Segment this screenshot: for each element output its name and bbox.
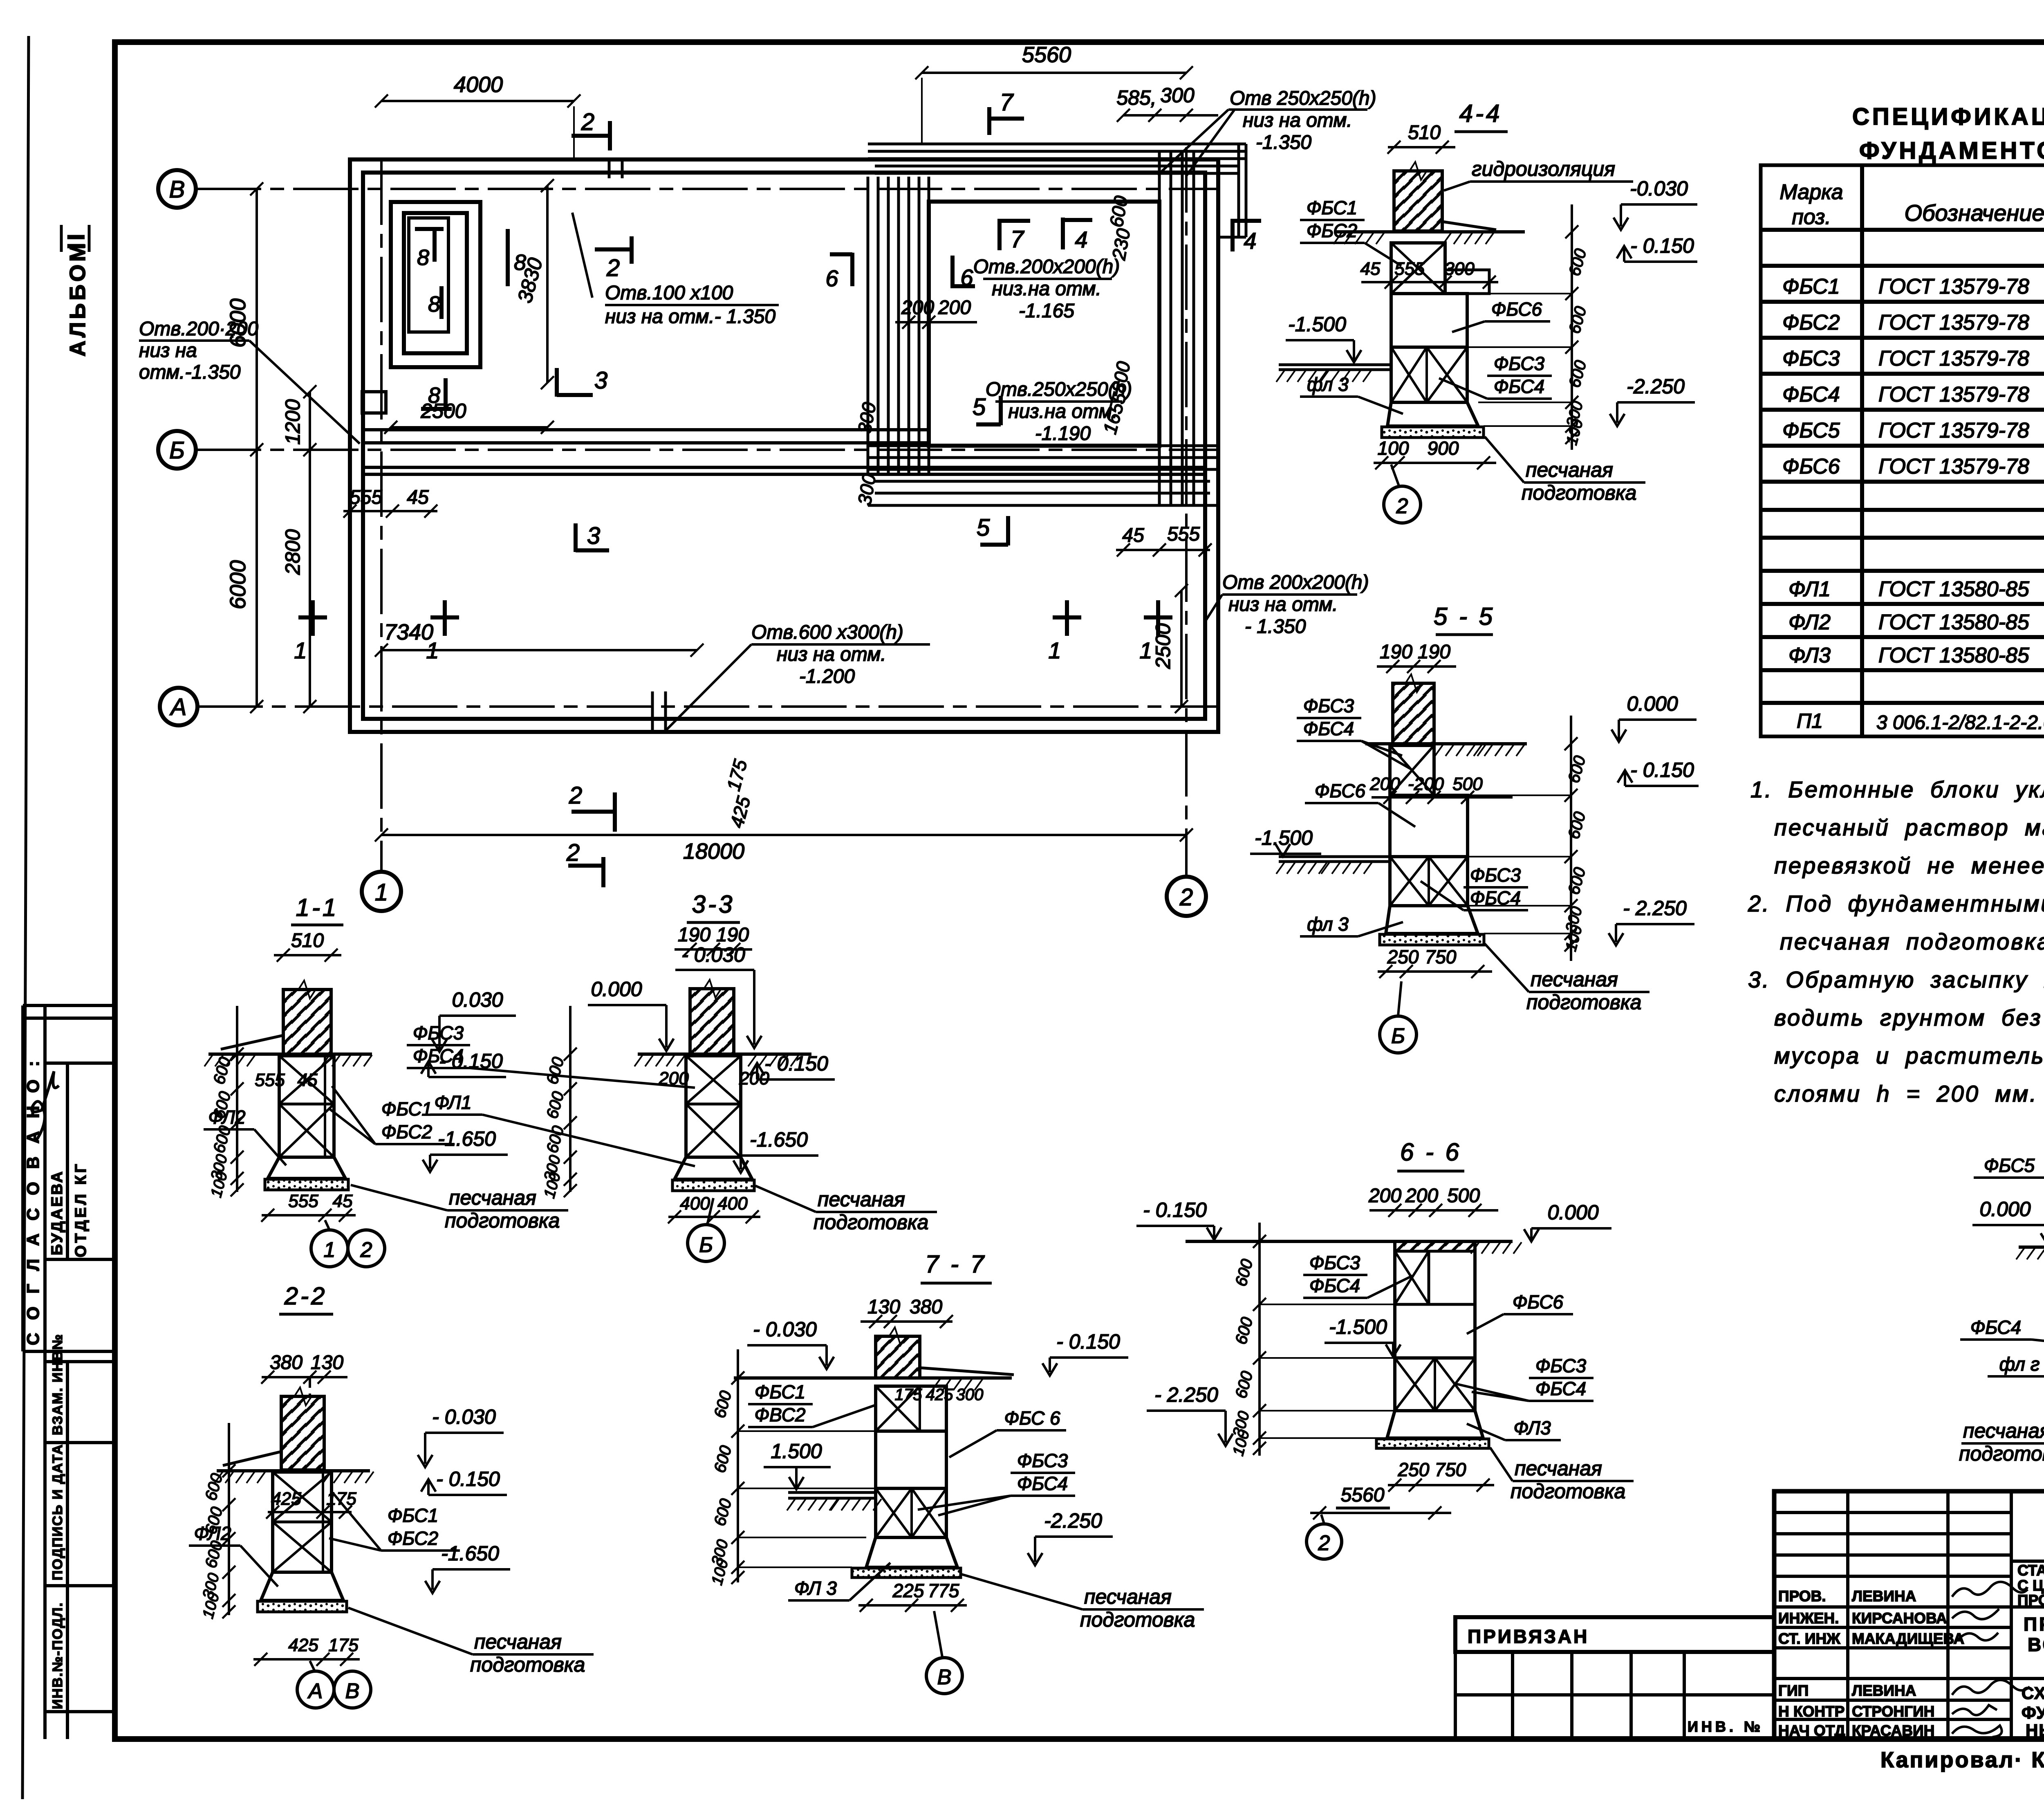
svg-text:ФБС2: ФБС2 (1307, 220, 1357, 241)
svg-text:НАЧ ОТД: НАЧ ОТД (1778, 1722, 1845, 1739)
svg-text:200: 200 (739, 1068, 769, 1088)
svg-text:II: II (63, 231, 90, 249)
axis Б circle (158, 431, 196, 469)
section 7-7 floor slab left (788, 1491, 876, 1494)
dim 2500 right (1180, 590, 1183, 707)
svg-text:ФБС4: ФБС4 (1782, 383, 1840, 406)
section 2-2 axis circles А В (297, 1671, 334, 1708)
section 1-1 wall (283, 990, 331, 1054)
svg-text:750: 750 (1435, 1459, 1466, 1480)
wall inner rectangle (363, 173, 1205, 719)
svg-text:2. Под фундаментными плитами: 2. Под фундаментными плитами устраиваетс… (1748, 891, 2044, 916)
svg-text:водить грунтом без включени: водить грунтом без включения строительно… (1774, 1005, 2044, 1030)
svg-text:380: 380 (270, 1352, 303, 1373)
axis А line (197, 705, 1218, 708)
row ФБС3 (1782, 344, 2044, 370)
svg-text:ФЛ 3: ФЛ 3 (794, 1578, 837, 1599)
left stamp grid (23, 1005, 112, 1739)
svg-text:ФБС3: ФБС3 (1303, 695, 1354, 716)
svg-text:Н КОНТР: Н КОНТР (1778, 1703, 1845, 1720)
svg-text:500: 500 (1452, 774, 1483, 794)
svg-text:300: 300 (1160, 84, 1195, 107)
svg-text:КРАСАВИН: КРАСАВИН (1852, 1722, 1934, 1739)
svg-text:- 0.150: - 0.150 (1630, 759, 1694, 781)
svg-text:ФБС4: ФБС4 (1535, 1378, 1586, 1399)
svg-text:5560: 5560 (1341, 1484, 1385, 1506)
svg-text:ФБС3: ФБС3 (413, 1022, 464, 1044)
svg-text:низ на: низ на (139, 340, 197, 361)
section 3-3 blocks (686, 1056, 741, 1157)
svg-text:песчаная: песчаная (1526, 458, 1613, 481)
svg-text:4: 4 (1075, 227, 1087, 252)
axis В circle (158, 170, 196, 208)
svg-text:песчаный раствор марки 50 с: песчаный раствор марки 50 с обязательной (1774, 815, 2044, 840)
small room top-left rect 3 (409, 218, 448, 332)
section 3-3 sand slab (672, 1180, 754, 1191)
dim 7340 (381, 649, 697, 651)
section 4-4 footing (1387, 402, 1478, 426)
axis 1 line (380, 159, 383, 872)
svg-text:ГОСТ 13579-78: ГОСТ 13579-78 (1878, 419, 2029, 442)
svg-text:ФБС4: ФБС4 (1494, 376, 1544, 397)
section 5-5 sand slab (1380, 934, 1484, 945)
svg-text:-1.500: -1.500 (1329, 1315, 1387, 1338)
row ФЛ3 (1788, 641, 2044, 667)
svg-text:низ на отм.: низ на отм. (777, 644, 886, 665)
svg-text:Отв.250х250(h): Отв.250х250(h) (986, 379, 1132, 400)
dim 18000 (381, 834, 1186, 836)
svg-text:5: 5 (977, 514, 990, 541)
section 3-3 dim chain (569, 1006, 572, 1192)
dim 6000 upper (255, 189, 258, 450)
svg-text:1-1: 1-1 (296, 894, 339, 921)
svg-text:ФБС3: ФБС3 (1309, 1252, 1360, 1273)
svg-text:1200: 1200 (281, 399, 304, 444)
svg-text:200: 200 (901, 297, 934, 319)
section 7-7 wall (876, 1336, 920, 1378)
svg-text:подготовка: подготовка (1959, 1442, 2044, 1465)
svg-text:ПРОИЗВОДСТВЕННО-: ПРОИЗВОДСТВЕННО- (2024, 1614, 2044, 1635)
svg-text:510: 510 (291, 930, 324, 952)
svg-text:подготовка: подготовка (814, 1211, 928, 1234)
section marks 5 (973, 394, 1001, 425)
svg-text:ФБС1: ФБС1 (1307, 197, 1357, 218)
section mark 3 lower (576, 523, 609, 552)
svg-text:- 1.350: - 1.350 (1245, 616, 1306, 637)
section 3-3 wall (690, 989, 734, 1054)
svg-text:- 0.150: - 0.150 (764, 1052, 828, 1075)
signature rows names (1852, 1588, 1964, 1739)
section mark 2 bottom (566, 839, 603, 887)
section 6-6 axis circle 2 (1307, 1524, 1342, 1559)
svg-text:900: 900 (1428, 438, 1459, 459)
svg-text:ФБС4: ФБС4 (1309, 1275, 1360, 1296)
section 4-4 block ФБС6 (1391, 294, 1467, 347)
svg-text:СХЕМА РАСПОЛОЖЕНИЯ: СХЕМА РАСПОЛОЖЕНИЯ (2022, 1683, 2044, 1703)
svg-text:0.000: 0.000 (1627, 692, 1678, 715)
title block grid (1774, 1491, 2044, 1739)
title block outer (1774, 1491, 2044, 1739)
svg-text:ГОСТ 13579-78: ГОСТ 13579-78 (1878, 311, 2029, 334)
svg-text:мусора и растительного грунт: мусора и растительного грунта с уплотнен… (1774, 1043, 2044, 1068)
svg-text:250: 250 (1387, 946, 1419, 967)
svg-text:1: 1 (375, 879, 388, 906)
section 7-7 dim chain (737, 1349, 739, 1582)
section 4-4 floor pipe left (1279, 364, 1391, 366)
svg-text:ГОСТ 13579-78: ГОСТ 13579-78 (1878, 347, 2029, 370)
svg-text:А: А (170, 694, 187, 720)
svg-text:ФБС1: ФБС1 (1782, 275, 1840, 298)
axis Б line (196, 449, 1218, 451)
svg-text:45: 45 (333, 1191, 353, 1211)
svg-text:С О Г Л А С О В А Н О :: С О Г Л А С О В А Н О : (23, 1057, 43, 1345)
svg-text:555: 555 (350, 487, 382, 508)
small room top-left rect 2 (404, 213, 467, 353)
svg-text:ФЛ3: ФЛ3 (1788, 644, 1831, 667)
section 5-5 footing (1386, 906, 1478, 934)
row ФБС1 (1782, 272, 2044, 298)
section 5-5 axis circle Б (1380, 1016, 1416, 1053)
svg-text:-1.165: -1.165 (1019, 300, 1074, 322)
svg-text:-2.250: -2.250 (1627, 375, 1685, 398)
axis В line (196, 188, 1218, 190)
axis 2 circle (1167, 877, 1206, 916)
section marks 1 (294, 600, 327, 663)
svg-text:ФБС4: ФБС4 (1970, 1317, 2021, 1338)
svg-text:НЫХ СТЕН.: НЫХ СТЕН. (2026, 1721, 2044, 1740)
svg-text:5560: 5560 (1022, 43, 1071, 67)
svg-text:-1.500: -1.500 (1288, 313, 1346, 336)
row ФЛ2 (1788, 608, 2044, 634)
svg-text:подготовка: подготовка (445, 1209, 560, 1232)
svg-text:ФБС6: ФБС6 (1513, 1291, 1564, 1313)
svg-text:низ.на отм.: низ.на отм. (1008, 401, 1118, 422)
svg-text:6: 6 (960, 265, 973, 290)
svg-text:ИНЖЕН.: ИНЖЕН. (1778, 1610, 1839, 1627)
svg-text:18000: 18000 (683, 839, 744, 864)
leader note: Отв.250х250(h) -1.190 (986, 379, 1132, 444)
section 1-1 dim chain (236, 1006, 238, 1192)
svg-text:ФБС3: ФБС3 (1017, 1450, 1068, 1471)
sheet outer edge left (22, 36, 29, 1799)
svg-text:Отв.100 х100: Отв.100 х100 (605, 282, 733, 304)
svg-text:425: 425 (271, 1489, 301, 1509)
svg-text:ФЛ2: ФЛ2 (1788, 610, 1831, 634)
svg-text:ФЛ1: ФЛ1 (434, 1092, 471, 1113)
svg-text:Отв.200·200: Отв.200·200 (139, 318, 258, 340)
svg-text:500: 500 (1447, 1185, 1480, 1207)
leader note right: Отв 200х200(h) (1205, 572, 1369, 637)
opening in bottom wall (651, 691, 654, 734)
row ФЛ1 (1788, 575, 2044, 601)
svg-text:поз.: поз. (1792, 205, 1831, 229)
svg-text:песчаная: песчаная (1963, 1419, 2044, 1442)
svg-text:190: 190 (1380, 641, 1412, 663)
svg-text:ФБС2: ФБС2 (1782, 311, 1840, 334)
section mark 2 top (572, 109, 610, 150)
svg-text:8: 8 (428, 383, 440, 408)
section 7-7 block ФБС6 (876, 1431, 946, 1488)
dim 1200 / 2800 (309, 392, 311, 707)
section mark 2 bottom middle (569, 782, 615, 832)
svg-text:-1.650: -1.650 (750, 1128, 808, 1151)
svg-text:1: 1 (1139, 637, 1152, 663)
svg-text:ФБС2: ФБС2 (381, 1121, 432, 1142)
svg-text:400: 400 (717, 1194, 748, 1214)
svg-text:585,: 585, (1116, 86, 1156, 109)
svg-text:- 0.030: - 0.030 (753, 1318, 817, 1341)
svg-text:ИНВ. №: ИНВ. № (1688, 1718, 1764, 1735)
svg-text:6000: 6000 (226, 560, 250, 609)
svg-text:4000: 4000 (454, 72, 503, 97)
section mark 2 mid with leader (572, 213, 632, 298)
svg-text:Б: Б (1391, 1024, 1405, 1048)
section 1-1 sand slab (265, 1179, 348, 1190)
section 2-2 blocks (273, 1472, 332, 1572)
svg-text:-200: -200 (1408, 774, 1444, 794)
svg-text:ВСПОМОГАТЕЛЬНОЕ: ВСПОМОГАТЕЛЬНОЕ (2028, 1634, 2044, 1655)
svg-text:ФБС6: ФБС6 (1491, 298, 1542, 320)
axis 1 circle (362, 872, 401, 911)
svg-text:45: 45 (1360, 259, 1381, 279)
svg-text:380: 380 (910, 1296, 942, 1318)
svg-text:Отв 200х200(h): Отв 200х200(h) (1222, 572, 1369, 593)
section 4-4 step ledge (1445, 270, 1489, 294)
svg-text:0.000: 0.000 (1547, 1201, 1598, 1224)
section 5-5 wall (1393, 683, 1434, 744)
section 1-1 footing (268, 1157, 345, 1178)
svg-text:подготовка: подготовка (1526, 991, 1641, 1014)
svg-text:ПОДПИСЬ И ДАТА: ПОДПИСЬ И ДАТА (50, 1444, 65, 1580)
svg-text:ГОСТ 13579-78: ГОСТ 13579-78 (1878, 275, 2029, 298)
section 5-5 dim chain (1570, 716, 1572, 961)
section 5-5 blocks top row (1390, 745, 1434, 795)
svg-text:песчаная: песчаная (1515, 1457, 1602, 1480)
section 7-7 sand slab (852, 1568, 961, 1578)
svg-text:низ на отм.: низ на отм. (1243, 110, 1352, 131)
svg-text:555: 555 (255, 1070, 285, 1090)
svg-text:В: В (169, 176, 185, 203)
svg-text:-1.500: -1.500 (1255, 826, 1313, 849)
small room top-left rect 1 (391, 202, 480, 367)
svg-text:ФБС4: ФБС4 (1303, 718, 1354, 739)
svg-text:2: 2 (1396, 494, 1408, 518)
svg-text:Б: Б (699, 1233, 713, 1257)
axis А circle (160, 688, 197, 725)
section 6-6 sand slab (1376, 1439, 1489, 1448)
axis 2 line (1185, 147, 1188, 877)
section 4-4 dim chain (1571, 204, 1573, 450)
svg-text:-1.650: -1.650 (441, 1542, 499, 1565)
svg-text:2: 2 (1179, 884, 1193, 911)
svg-text:ФУНДАМЕНТОВ И ПОДПОРНЫХ СТЕ: ФУНДАМЕНТОВ И ПОДПОРНЫХ СТЕН. (1859, 137, 2044, 164)
svg-text:100: 100 (1378, 438, 1409, 459)
svg-text:В: В (937, 1665, 952, 1689)
svg-text:Отв 250х250(h): Отв 250х250(h) (1230, 88, 1376, 109)
svg-text:А: А (307, 1679, 323, 1703)
svg-text:200: 200 (1368, 1185, 1401, 1207)
svg-text:1: 1 (1048, 637, 1061, 663)
svg-text:отм.-1.350: отм.-1.350 (139, 361, 241, 383)
svg-text:- 0.150: - 0.150 (1630, 234, 1694, 257)
section 1-1 axis circles 1 2 (311, 1230, 348, 1267)
svg-text:ФБС5: ФБС5 (1984, 1155, 2035, 1176)
svg-text:2500: 2500 (1152, 623, 1174, 669)
svg-text:ФУНДАМЕНТОВ И ПОДПОР-: ФУНДАМЕНТОВ И ПОДПОР- (2022, 1703, 2044, 1722)
section 1-1 apron slope (221, 1035, 283, 1049)
svg-text:СПЕЦИФИКАЦИЯ К СХЕМЕ РАСПОЛО: СПЕЦИФИКАЦИЯ К СХЕМЕ РАСПОЛОЖЕНИЯ (1852, 103, 2044, 130)
svg-text:-1.350: -1.350 (1256, 132, 1311, 153)
svg-text:низ на отм.- 1.350: низ на отм.- 1.350 (605, 306, 775, 328)
svg-text:555: 555 (1167, 523, 1200, 545)
svg-text:СТАНЦИЯ БИОЛОГИЧЕСКОЙ ОЧИСТКИ: СТАНЦИЯ БИОЛОГИЧЕСКОЙ ОЧИСТКИ СТОЧНЫХ ВО… (2017, 1562, 2044, 1579)
section 7-7 apron and ground (920, 1368, 1014, 1375)
section 5-5 floor pipe left (1279, 855, 1390, 858)
svg-text:Марка: Марка (1780, 180, 1843, 204)
svg-text:Обозначение: Обозначение (1904, 200, 2044, 226)
section 4-4 axis circle 2 (1384, 486, 1421, 523)
row ФБС6 (1782, 452, 2044, 478)
retaining wall band top of right room (868, 144, 1246, 173)
svg-text:ФБС1: ФБС1 (381, 1098, 432, 1120)
wall protrusion left (362, 392, 386, 413)
right room inner outline (929, 202, 1159, 446)
svg-text:ГОСТ 13579-78: ГОСТ 13579-78 (1878, 455, 2029, 478)
svg-text:ПРОВ.: ПРОВ. (1778, 1588, 1826, 1605)
dim 6000 lower (255, 450, 258, 707)
section 5-5 blocks bottom rows (1390, 857, 1468, 906)
svg-text:ФЛ2: ФЛ2 (208, 1106, 245, 1128)
svg-text:-0.030: -0.030 (1630, 177, 1688, 200)
svg-text:1: 1 (294, 637, 307, 663)
Привязан box (1455, 1617, 1774, 1652)
svg-text:песчаная: песчаная (449, 1186, 536, 1209)
svg-text:гидроизоляция: гидроизоляция (1472, 157, 1615, 180)
svg-text:1: 1 (426, 637, 439, 663)
svg-text:ФБС4: ФБС4 (413, 1045, 464, 1066)
svg-text:ФВС2: ФВС2 (754, 1404, 805, 1425)
svg-text:775: 775 (928, 1580, 959, 1601)
svg-text:Капировал· Каршунова: Капировал· Каршунова (1880, 1748, 2044, 1772)
svg-text:- 0.030: - 0.030 (432, 1405, 496, 1428)
svg-text:8: 8 (514, 250, 526, 275)
section 4-4 ground (1336, 230, 1525, 233)
section 2-2 apron slope (223, 1452, 281, 1465)
svg-text:- 0.150: - 0.150 (1056, 1330, 1120, 1353)
svg-text:225: 225 (892, 1580, 924, 1601)
svg-text:2: 2 (606, 255, 620, 281)
svg-text:425: 425 (926, 1386, 953, 1404)
row ФБС2 (1782, 308, 2044, 334)
svg-text:Отв.200х200(h): Отв.200х200(h) (973, 256, 1120, 278)
svg-text:ЛЕВИНА: ЛЕВИНА (1852, 1588, 1916, 1605)
section 3-3 axis circle Б (688, 1225, 724, 1261)
svg-text:- 0.030: - 0.030 (681, 943, 745, 966)
svg-text:ПРИВЯЗАН: ПРИВЯЗАН (1468, 1626, 1589, 1647)
svg-text:ФБС 6: ФБС 6 (1004, 1407, 1060, 1429)
svg-text:510: 510 (1408, 122, 1441, 144)
leader note: Отв.600х300(h) (664, 622, 930, 732)
svg-text:Отв.600 х300(h): Отв.600 х300(h) (751, 622, 903, 643)
svg-text:130: 130 (867, 1296, 900, 1318)
svg-text:ПРОИЗВОДИТЕЛЬНОСТЬЮ 1400 М³/: ПРОИЗВОДИТЕЛЬНОСТЬЮ 1400 М³/СУТКИ (2017, 1592, 2044, 1609)
dim 585 300 (1123, 114, 1218, 117)
svg-text:П1: П1 (1797, 709, 1823, 732)
svg-text:2: 2 (360, 1238, 372, 1262)
section 4-4 wall (1394, 171, 1442, 231)
middle wall on axis Б (363, 430, 1205, 474)
svg-text:8: 8 (428, 292, 440, 316)
svg-text:555: 555 (288, 1191, 318, 1211)
svg-text:7: 7 (1011, 226, 1025, 253)
section 2-2 sand slab (258, 1601, 347, 1612)
svg-text:3 006.1-2/82.1-2-2.0: 3 006.1-2/82.1-2-2.0 (1876, 712, 2044, 734)
svg-text:5 - 5: 5 - 5 (1434, 603, 1495, 630)
svg-text:ФБС3: ФБС3 (1535, 1355, 1587, 1376)
svg-text:45: 45 (407, 487, 429, 508)
svg-text:В: В (345, 1679, 360, 1703)
svg-text:45: 45 (1122, 525, 1144, 546)
retaining wall protrusion top-right corner (1218, 144, 1246, 237)
svg-text:2: 2 (566, 839, 580, 866)
dim 4000 (381, 100, 574, 102)
retaining wall band left of right room (868, 177, 929, 474)
section 5-5 block ФБС6 (1390, 795, 1468, 857)
leader note: Отв.200х200(h) -1.165 (973, 256, 1120, 322)
svg-text:ФБС1: ФБС1 (388, 1505, 438, 1526)
svg-text:- 2.250: - 2.250 (1154, 1383, 1218, 1406)
svg-text:фл г: фл г (1999, 1353, 2040, 1375)
svg-text:ФБС3: ФБС3 (1470, 864, 1521, 886)
section 7-7 axis circle В (926, 1658, 962, 1694)
svg-text:АЛЬБОМ: АЛЬБОМ (65, 240, 90, 357)
svg-text:0.030: 0.030 (452, 988, 503, 1011)
svg-text:ФБС3: ФБС3 (1782, 347, 1840, 370)
svg-text:перевязкой не менее 0,4 вы: перевязкой не менее 0,4 высоты блока. (1774, 853, 2044, 878)
svg-text:ФБС6: ФБС6 (1315, 780, 1366, 801)
section 6-6 ground (1186, 1240, 1395, 1243)
svg-text:песчаная подготовка высотой: песчаная подготовка высотой 100 мм. (1780, 929, 2044, 954)
section 2-2 ground (217, 1469, 370, 1472)
svg-text:4: 4 (1244, 228, 1256, 254)
svg-text:ФЛ3: ФЛ3 (1513, 1417, 1551, 1438)
section 2-2 footing (261, 1572, 343, 1600)
section marks 7 (989, 89, 1024, 135)
section 3-3 footing (675, 1157, 752, 1179)
section 4-4 blocks top row (1391, 243, 1445, 294)
svg-text:1. Бетонные блоки укладывать: 1. Бетонные блоки укладывать на цементно… (1750, 776, 2044, 802)
section 4-4 blocks bottom rows (1391, 347, 1467, 402)
svg-text:200: 200 (938, 297, 971, 319)
svg-text:подготовка: подготовка (1522, 481, 1636, 504)
section 7-7 blocks top row (876, 1386, 946, 1431)
svg-text:200: 200 (1405, 1185, 1438, 1207)
stamp signature squiggle (32, 1071, 59, 1141)
section mark 3 upper (557, 367, 607, 397)
svg-text:КИРСАНОВА: КИРСАНОВА (1852, 1610, 1947, 1627)
svg-text:ГОСТ 13580-85: ГОСТ 13580-85 (1878, 644, 2030, 667)
svg-text:250: 250 (1398, 1459, 1430, 1480)
svg-text:4-4: 4-4 (1459, 100, 1502, 127)
row ФБС5 (1782, 416, 2044, 442)
svg-text:- 0.150: - 0.150 (436, 1468, 500, 1490)
svg-text:3. Обратную засыпку пазух ф: 3. Обратную засыпку пазух фундаментов пр… (1748, 967, 2044, 992)
svg-text:2-2: 2-2 (284, 1282, 327, 1310)
svg-text:3-3: 3-3 (692, 891, 735, 918)
svg-text:слоями h = 200 мм.: слоями h = 200 мм. (1774, 1081, 2038, 1106)
row ФБС4 (1782, 380, 2044, 406)
svg-text:низ на отм.: низ на отм. (1228, 594, 1338, 615)
